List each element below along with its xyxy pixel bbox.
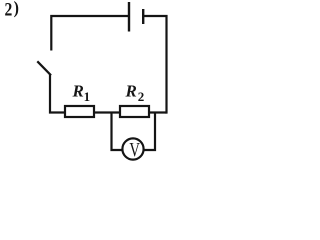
- wire voltmeter left branch: [112, 113, 122, 151]
- wire top-left corner (left upper vertical + top horizontal to battery): [51, 16, 130, 51]
- voltmeter V (circle with V): [122, 138, 143, 161]
- svg-text:R: R: [125, 82, 137, 101]
- battery cell short plate (-): [142, 9, 144, 24]
- svg-text:): ): [14, 0, 19, 18]
- svg-text:2: 2: [138, 89, 145, 104]
- svg-text:V: V: [129, 138, 140, 161]
- switch S open blade: [37, 61, 51, 75]
- svg-text:1: 1: [84, 89, 91, 104]
- wire voltmeter right branch: [144, 113, 155, 151]
- wire bottom-right segment (right vertical to R2): [148, 111, 167, 113]
- battery cell long plate (+): [128, 2, 130, 32]
- wire between R1 and R2: [93, 111, 121, 113]
- resistor R1: [65, 106, 94, 117]
- resistor R2: [120, 106, 149, 117]
- wire bottom-left corner (R1 to lower-left vertical): [50, 75, 66, 113]
- svg-text:R: R: [72, 82, 84, 101]
- svg-text:2: 2: [5, 0, 13, 20]
- wire top-right corner (battery to right vertical): [143, 16, 166, 114]
